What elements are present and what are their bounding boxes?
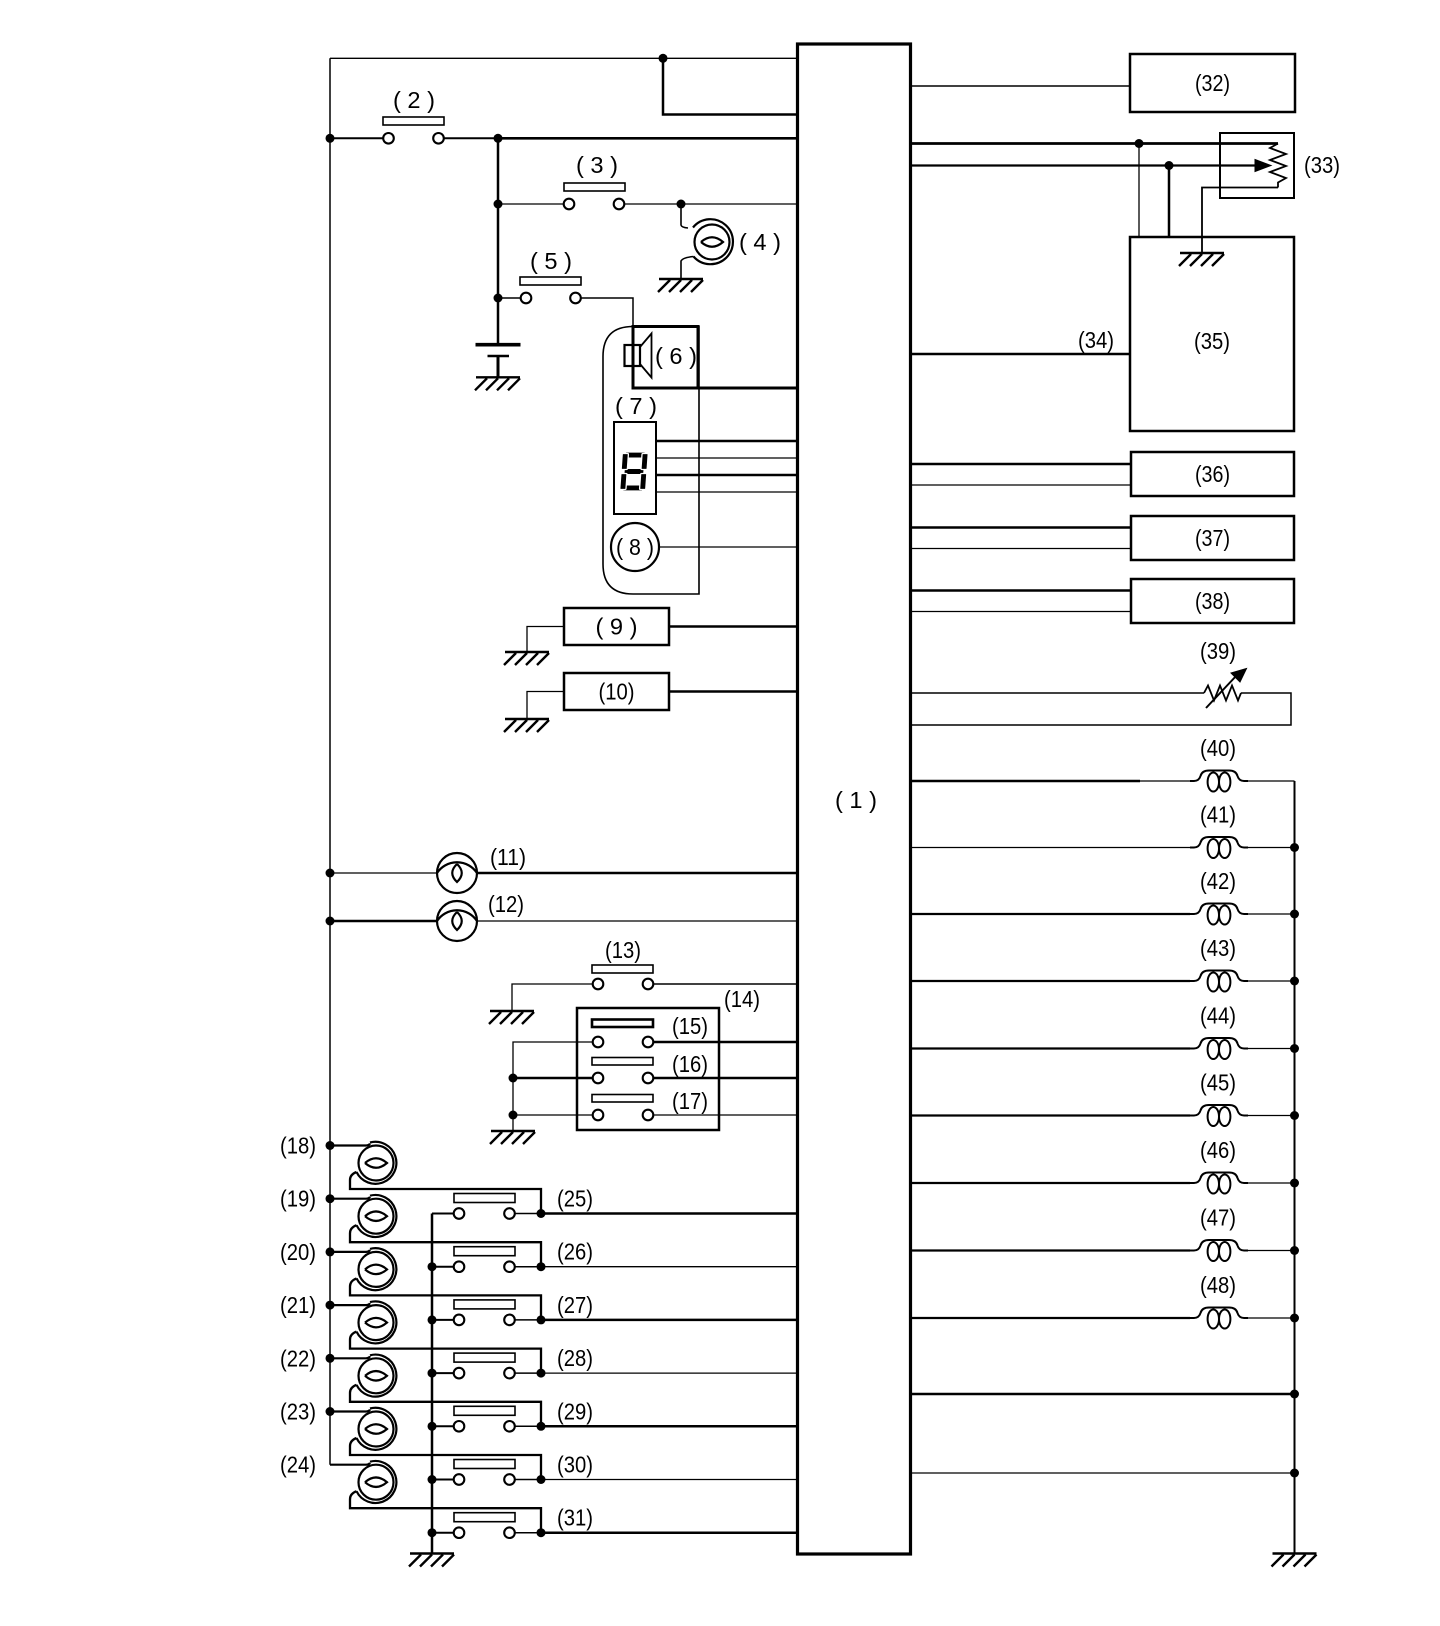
wire ECU to pot (33) top [911, 142, 1279, 145]
svg-text:(24): (24) [280, 1452, 316, 1478]
coil (47) [1190, 1240, 1248, 1251]
sensor box (35) [1130, 237, 1294, 431]
box (36) [1131, 452, 1294, 496]
wire switch (30) left [432, 1479, 454, 1481]
ECU box (1) [798, 44, 911, 1554]
switch (15) [592, 1020, 653, 1028]
svg-text:(16): (16) [672, 1051, 708, 1077]
junction lamp (11) [326, 869, 335, 878]
wire (9) to ground [527, 627, 564, 653]
junction lamp (20) [326, 1247, 335, 1256]
wire (17) to ECU [653, 1114, 797, 1116]
wire (9) to ECU [669, 625, 798, 628]
junction node for switch (3) [494, 200, 503, 209]
junction switch (26) output [537, 1262, 546, 1271]
ground (9) [504, 652, 549, 665]
wire switch (31) right [515, 1532, 541, 1534]
wire coil (46) to bus [1248, 1182, 1295, 1184]
wire pot bottom to ground [1202, 188, 1278, 254]
switch (2) [383, 117, 444, 125]
wire speaker to ECU [698, 387, 798, 390]
junction switch (25) output [537, 1209, 546, 1218]
pot box (33) [1220, 133, 1294, 198]
switch (29) [454, 1406, 515, 1415]
wire ECU to coil (43) [911, 980, 1191, 982]
svg-text:( 3 ): ( 3 ) [576, 152, 618, 178]
junction switch (29) output [537, 1422, 546, 1431]
ground switch bus [409, 1554, 454, 1567]
wire lamp (24) output [350, 1491, 541, 1533]
junction switch (30) output [537, 1475, 546, 1484]
wire switch (28) right [515, 1372, 541, 1374]
junction switch bus (31) [428, 1528, 437, 1537]
wire ECU to coil (41) [911, 847, 1191, 849]
box (9) [564, 608, 669, 645]
wire switch (30) right [515, 1479, 541, 1481]
svg-text:( 8 ): ( 8 ) [616, 534, 654, 560]
lamp (18) [359, 1146, 394, 1181]
junction switch (27) output [537, 1315, 546, 1324]
switch (27) [454, 1300, 515, 1309]
coil (46) [1190, 1173, 1248, 1184]
junction bus ground a [1290, 1390, 1299, 1399]
wire (25) to ECU [541, 1212, 798, 1215]
switch (31) [454, 1513, 515, 1522]
wire ECU to coil (42) [911, 913, 1191, 915]
lamp (24) [359, 1465, 394, 1500]
svg-text:(12): (12) [488, 891, 524, 917]
wire main feed to ECU [498, 137, 798, 140]
junction switch bus (30) [428, 1475, 437, 1484]
junction bus coil (43) [1290, 977, 1299, 986]
svg-text:(45): (45) [1200, 1070, 1236, 1096]
svg-text:(17): (17) [672, 1088, 708, 1114]
wire (26) to ECU [541, 1266, 798, 1268]
junction lamp (19) [326, 1194, 335, 1203]
indicator (8) [611, 523, 659, 571]
wire coil (47) to bus [1248, 1250, 1295, 1252]
svg-text:(32): (32) [1195, 70, 1230, 96]
wire (15) to ECU [653, 1041, 797, 1044]
wire ECU to pot (33) wiper [911, 164, 1258, 166]
wire lamp (19) output [350, 1225, 541, 1267]
variable resistor (39) zigzag [1204, 686, 1241, 701]
svg-text:(46): (46) [1200, 1137, 1236, 1163]
wire switch (2) to junction [444, 137, 498, 139]
wire down to sensor (35) b [1168, 166, 1171, 238]
switch (3) [564, 183, 625, 191]
wire switch (26) left [432, 1266, 454, 1268]
relay box (14) [577, 1008, 719, 1130]
lamp (12) [437, 901, 477, 941]
coil (42) [1190, 904, 1248, 915]
wire down to sensor (35) a [1138, 144, 1140, 238]
wire (16) to ECU [653, 1077, 797, 1080]
wire to lamp (23) [330, 1410, 370, 1412]
ground (13) [489, 1011, 534, 1024]
svg-text:(44): (44) [1200, 1003, 1236, 1029]
wire main feed left segment [330, 137, 383, 139]
wire ECU to (32) [911, 85, 1131, 87]
wire battery to ground [497, 356, 500, 377]
wire (17) left [513, 1114, 593, 1116]
wire to lamp (22) [330, 1356, 370, 1358]
junction switch bus (28) [428, 1369, 437, 1378]
junction switch (28) output [537, 1369, 546, 1378]
wire top rail [330, 57, 798, 59]
svg-text:(11): (11) [490, 844, 526, 870]
wire down to lamp (4) [681, 204, 688, 228]
wire 7seg pin 1 [656, 440, 798, 443]
wire to switch (5) [498, 297, 521, 299]
wire ECU ground a [911, 1393, 1295, 1396]
wire coil (48) to bus [1248, 1317, 1295, 1319]
svg-text:(25): (25) [557, 1186, 593, 1212]
wire ECU to (36) a [911, 463, 1132, 466]
lamp (11) [437, 853, 477, 893]
svg-text:(26): (26) [557, 1239, 593, 1265]
switch (28) [454, 1353, 515, 1362]
wire switch (25) left [432, 1213, 454, 1215]
svg-text:(34): (34) [1078, 327, 1114, 353]
svg-text:(20): (20) [280, 1239, 316, 1265]
lamp (22) [359, 1358, 394, 1393]
wire to lamp (24) [330, 1463, 370, 1465]
junction bus coil (44) [1290, 1044, 1299, 1053]
ground right bus [1272, 1554, 1317, 1567]
wire coil (40) to bus [1248, 780, 1295, 782]
wire lamp (23) output [350, 1438, 541, 1480]
coil (40) [1190, 771, 1248, 782]
svg-text:(30): (30) [557, 1452, 593, 1478]
wire lamp (4) to ground [681, 257, 694, 280]
junction switch bus (26) [428, 1262, 437, 1271]
svg-text:(28): (28) [557, 1345, 593, 1371]
svg-text:( 9 ): ( 9 ) [596, 614, 638, 640]
coil (44) [1190, 1038, 1248, 1049]
wire coil (41) to bus [1248, 847, 1295, 849]
battery negative plate [488, 355, 510, 357]
svg-text:(22): (22) [280, 1345, 316, 1371]
svg-text:(42): (42) [1200, 868, 1236, 894]
ground relay box (14) [490, 1131, 535, 1144]
junction switch bus (27) [428, 1315, 437, 1324]
wire (28) to ECU [541, 1372, 798, 1374]
pot (33) resistor zigzag [1270, 144, 1286, 188]
wire switch (31) left [432, 1532, 454, 1534]
wire 7seg pin 3 [656, 474, 798, 477]
svg-text:(41): (41) [1200, 802, 1236, 828]
svg-text:(43): (43) [1200, 935, 1236, 961]
switch (25) [454, 1194, 515, 1203]
junction lamp (21) [326, 1301, 335, 1310]
wire (27) to ECU [541, 1319, 798, 1322]
junction bus coil (42) [1290, 910, 1299, 919]
svg-text:( 5 ): ( 5 ) [530, 248, 572, 274]
wire coil (44) to bus [1248, 1048, 1295, 1050]
junction pot top feed [1135, 139, 1144, 148]
wire to lamp (21) [330, 1303, 370, 1305]
wire (8) to ECU [659, 546, 798, 548]
switch (13) [592, 965, 653, 973]
switch (16) [592, 1058, 653, 1066]
junction bus coil (45) [1290, 1111, 1299, 1120]
wire switch (5) to speaker [581, 298, 633, 345]
coil (45) [1190, 1105, 1248, 1116]
wire (15) left to ground bus [513, 1042, 593, 1131]
switch (26) [454, 1247, 515, 1256]
lamp (23) [359, 1412, 394, 1447]
wire (39) return loop [911, 693, 1292, 725]
svg-text:(13): (13) [605, 937, 641, 963]
coil (43) [1190, 971, 1248, 982]
coil (41) [1190, 837, 1248, 848]
svg-text:( 4 ): ( 4 ) [739, 229, 781, 255]
wire ECU to (36) b [911, 484, 1132, 486]
wire (30) to ECU [541, 1479, 798, 1481]
junction bus coil (41) [1290, 843, 1299, 852]
junction lamp (18) [326, 1141, 335, 1150]
svg-text:(48): (48) [1200, 1272, 1236, 1298]
coil (48) [1190, 1308, 1248, 1319]
wire (34) ECU to (35) [911, 353, 1131, 356]
box (10) [564, 673, 669, 710]
speaker (6) symbol [625, 345, 641, 366]
wire to lamp (18) [330, 1144, 370, 1146]
junction (16) ground bus [509, 1074, 518, 1083]
junction bus coil (46) [1290, 1179, 1299, 1188]
svg-text:(15): (15) [672, 1013, 708, 1039]
lamp (20) [359, 1252, 394, 1287]
wire (10) to ground [527, 692, 564, 720]
junction lamp (12) [326, 917, 335, 926]
wire ECU to coil (40) [911, 780, 1141, 783]
junction bus ground b [1290, 1469, 1299, 1478]
wire 7seg pin 2 [656, 457, 798, 459]
ground inside (35) [1179, 253, 1224, 266]
svg-text:(36): (36) [1195, 461, 1230, 487]
junction top rail [659, 54, 668, 63]
wire ECU to coil (47) [911, 1249, 1191, 1251]
wire switch (29) left [432, 1425, 454, 1427]
wire to switch (3) [498, 203, 564, 205]
wire ECU to coil (44) [911, 1047, 1191, 1049]
7-segment display (7) [614, 422, 656, 514]
svg-text:(19): (19) [280, 1186, 316, 1212]
junction bus coil (47) [1290, 1246, 1299, 1255]
wire switch (13) to ECU [653, 983, 797, 985]
wire coil (43) to bus [1248, 980, 1295, 982]
wire ECU ground b [911, 1472, 1295, 1474]
lamp (21) [359, 1305, 394, 1340]
wire ECU to coil (45) [911, 1114, 1191, 1116]
wire ECU to coil (46) [911, 1182, 1191, 1184]
wire switch (13) to ground [512, 984, 593, 1011]
box (37) [1131, 516, 1294, 560]
svg-text:(33): (33) [1304, 152, 1340, 178]
wire to lamp (20) [330, 1250, 370, 1252]
wire switch (26) right [515, 1266, 541, 1268]
wire left bus vertical [329, 58, 331, 1464]
svg-text:(10): (10) [599, 679, 635, 705]
svg-text:( 6 ): ( 6 ) [655, 343, 697, 369]
wire ECU to (37) b [911, 548, 1132, 550]
junction switch bus (29) [428, 1422, 437, 1431]
wire to lamp (11) [330, 872, 437, 874]
junction lamp (23) [326, 1407, 335, 1416]
lamp (4) [695, 225, 730, 260]
wire coil (42) to bus [1248, 913, 1295, 915]
wire ECU to (38) a [911, 589, 1132, 592]
svg-text:(37): (37) [1195, 525, 1230, 551]
junction pot wiper feed [1165, 161, 1174, 170]
junction left bus / main wire [326, 134, 335, 143]
wire lamp (11) to ECU [477, 872, 798, 875]
svg-text:(35): (35) [1194, 328, 1230, 354]
svg-text:(21): (21) [280, 1292, 316, 1318]
svg-text:( 2 ): ( 2 ) [393, 87, 435, 113]
wire right ground bus [1294, 781, 1296, 1554]
svg-text:(31): (31) [557, 1505, 593, 1531]
wire ECU to (37) a [911, 526, 1132, 529]
wire 7seg pin 4 [656, 491, 798, 493]
wire (16) left [513, 1077, 593, 1080]
wire switch (29) right [515, 1425, 541, 1427]
svg-text:(14): (14) [724, 986, 760, 1012]
wire lamp (18) output [350, 1172, 541, 1214]
svg-text:(27): (27) [557, 1292, 593, 1318]
wire to lamp (12) [330, 920, 437, 923]
wire lamp (21) output [350, 1332, 541, 1374]
variable resistor (39) arrow [1206, 675, 1237, 708]
lamp (19) [359, 1199, 394, 1234]
wire lamp (12) to ECU [477, 920, 798, 922]
wiper arrowhead [1255, 160, 1271, 172]
svg-text:( 1 ): ( 1 ) [835, 787, 877, 813]
wire junction column [497, 138, 500, 345]
wire jog from top rail to ECU [663, 58, 798, 114]
wire (31) to ECU [541, 1531, 798, 1534]
wire (29) to ECU [541, 1425, 798, 1428]
wire lamp (22) output [350, 1385, 541, 1427]
ground (10) [504, 719, 549, 732]
svg-text:(29): (29) [557, 1398, 593, 1424]
wire switch (25) right [515, 1213, 541, 1215]
wire (10) to ECU [669, 690, 798, 693]
wire node to ECU at 204 [681, 203, 798, 205]
switch (30) [454, 1460, 515, 1469]
cluster enclosure (6)-(8) [603, 327, 699, 595]
box (38) [1131, 579, 1294, 623]
junction (17) ground bus [509, 1111, 518, 1120]
wire to lamp (19) [330, 1197, 370, 1199]
battery positive plate [476, 343, 521, 347]
svg-text:(38): (38) [1195, 588, 1230, 614]
svg-text:(23): (23) [280, 1399, 316, 1425]
wire switch (27) right [515, 1319, 541, 1321]
wire switch ground bus [431, 1214, 434, 1554]
wire ECU to variable resistor (39) [911, 692, 1205, 694]
junction main node [494, 134, 503, 143]
junction switch (31) output [537, 1528, 546, 1537]
svg-text:(18): (18) [280, 1133, 316, 1159]
junction lamp (22) [326, 1354, 335, 1363]
speaker box (6) [633, 327, 698, 389]
switch (5) [520, 277, 581, 285]
box (32) [1130, 54, 1295, 112]
ground battery [475, 377, 520, 390]
wire lamp (20) output [350, 1278, 541, 1320]
wire switch (28) left [432, 1372, 454, 1374]
wire coil (45) to bus [1248, 1115, 1295, 1117]
svg-text:(47): (47) [1200, 1205, 1236, 1231]
ground lamp (4) [658, 279, 703, 292]
wire ECU to (38) b [911, 611, 1132, 613]
wire switch (3) to node [625, 203, 682, 205]
svg-text:(39): (39) [1200, 638, 1236, 664]
svg-text:( 7 ): ( 7 ) [615, 393, 657, 419]
junction node lamp (4) [677, 200, 686, 209]
junction bus coil (48) [1290, 1314, 1299, 1323]
svg-text:(40): (40) [1200, 735, 1236, 761]
switch (17) [592, 1095, 653, 1103]
junction node for switch (5) [494, 294, 503, 303]
wire switch (27) left [432, 1319, 454, 1321]
wire ECU to coil (48) [911, 1317, 1191, 1319]
